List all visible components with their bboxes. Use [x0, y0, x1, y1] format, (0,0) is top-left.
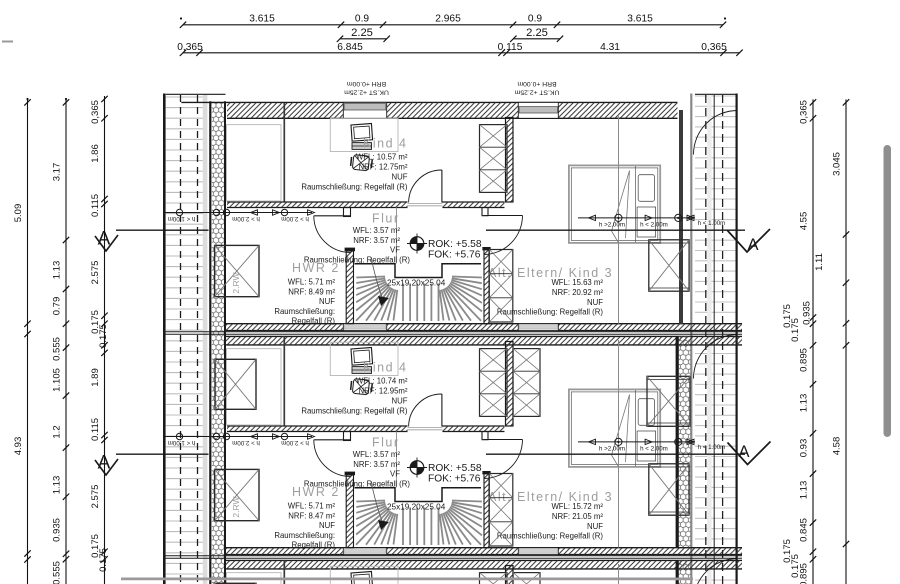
svg-text:1.13: 1.13 — [52, 261, 63, 280]
svg-text:HWR 2: HWR 2 — [292, 485, 340, 499]
svg-text:NRF: 8.49 m²: NRF: 8.49 m² — [288, 287, 335, 296]
svg-text:WFL: 15.72 m²: WFL: 15.72 m² — [551, 502, 603, 511]
height contour vertical — [618, 564, 620, 584]
svg-text:25x19.20x25.04: 25x19.20x25.04 — [387, 279, 446, 288]
svg-text:1.13: 1.13 — [799, 481, 810, 500]
svg-text:0.175: 0.175 — [98, 548, 109, 572]
bed divider — [635, 390, 637, 467]
door AltEltern arc — [484, 440, 523, 479]
svg-text:NUF: NUF — [319, 521, 335, 530]
bed fold — [612, 395, 630, 467]
left dimension chain coarse — [52, 98, 70, 584]
wall piece right of Flur — [482, 208, 488, 216]
stair treads left fan — [356, 501, 397, 545]
svg-text:NRF: 12.75m²: NRF: 12.75m² — [359, 162, 408, 171]
stair enclosure outline — [355, 488, 482, 502]
height line left — [164, 209, 314, 222]
svg-text:UK.ST +2.25m: UK.ST +2.25m — [514, 89, 559, 96]
svg-text:Raumschließung: Regelfall (R): Raumschließung: Regelfall (R) — [301, 406, 408, 415]
svg-text:h >2.00m: h >2.00m — [599, 445, 625, 452]
svg-text:0.935: 0.935 — [52, 518, 63, 542]
svg-text:FOK: +5.76: FOK: +5.76 — [428, 249, 481, 260]
svg-text:3.615: 3.615 — [627, 14, 653, 25]
chair — [350, 154, 372, 171]
door AltEltern leaf — [484, 439, 523, 441]
section marker left — [95, 453, 118, 476]
svg-text:Regelfall (R): Regelfall (R) — [292, 541, 336, 550]
desk — [330, 566, 398, 584]
svg-text:2.965: 2.965 — [435, 14, 461, 25]
svg-text:0.79: 0.79 — [52, 297, 63, 316]
svg-text:0,365: 0,365 — [177, 42, 203, 53]
escape window Kind4 — [215, 583, 256, 584]
svg-text:0.175: 0.175 — [98, 324, 109, 348]
unit1 top exterior wall band with two windows — [181, 102, 677, 118]
escape window HWR — [215, 245, 259, 296]
svg-text:NRF: 3.57 m²: NRF: 3.57 m² — [353, 236, 400, 245]
monitor — [351, 348, 373, 366]
svg-text:4.93: 4.93 — [13, 437, 24, 456]
svg-text:NRF: 12.95m²: NRF: 12.95m² — [359, 386, 408, 395]
svg-text:h > 2.00m: h > 2.00m — [232, 439, 260, 446]
monitor — [351, 124, 373, 142]
height line right — [578, 214, 725, 228]
wardrobe Kind4 — [480, 125, 508, 193]
left dimension chain fine — [90, 96, 109, 584]
svg-text:3.17: 3.17 — [52, 163, 63, 182]
svg-text:2.575: 2.575 — [90, 485, 101, 509]
escape window HWR — [215, 469, 259, 520]
door Kind4 arc — [409, 394, 442, 427]
top window label 1 — [344, 80, 389, 96]
stair walk line — [371, 481, 382, 521]
chair — [350, 378, 372, 395]
desk — [330, 342, 398, 375]
svg-text:0,365: 0,365 — [799, 100, 810, 124]
svg-text:Flur: Flur — [372, 212, 400, 226]
bed blanket — [637, 431, 656, 461]
stair walk arrow — [378, 296, 389, 306]
svg-text:NUF: NUF — [587, 298, 603, 307]
height contour vertical — [618, 340, 620, 548]
svg-text:1.89: 1.89 — [90, 368, 101, 387]
roof ridge line — [283, 336, 285, 426]
door HWR arc — [314, 440, 351, 477]
wardrobe Kind4 — [480, 573, 508, 584]
level marker — [407, 458, 427, 478]
right dimension chain coarse — [832, 99, 850, 584]
svg-text:WFL: 15.63 m²: WFL: 15.63 m² — [551, 278, 603, 287]
door AltEltern leaf — [484, 215, 523, 217]
Kind4 roof rect — [227, 573, 282, 584]
door threshold Flur-Kind4 — [408, 204, 443, 206]
svg-text:WFL: 10.57 m²: WFL: 10.57 m² — [356, 152, 408, 161]
svg-text:Kind 4: Kind 4 — [363, 361, 407, 375]
unit3 roof edge grey line — [121, 578, 693, 581]
level marker — [407, 234, 427, 254]
svg-text:BRH +0.00m: BRH +0.00m — [517, 80, 556, 87]
svg-text:0.115: 0.115 — [90, 418, 101, 441]
svg-text:25x19.20x25.04: 25x19.20x25.04 — [387, 503, 446, 512]
svg-text:2.25: 2.25 — [351, 27, 373, 39]
stair treads right fan — [440, 501, 482, 545]
keyboard — [352, 367, 372, 374]
right room wall (thick line) — [679, 110, 683, 324]
HWR/stair wall pillar — [345, 248, 355, 324]
svg-text:NRF: 20.92 m²: NRF: 20.92 m² — [552, 288, 604, 297]
svg-text:0.555: 0.555 — [52, 337, 63, 361]
section line right — [486, 453, 745, 455]
top window label 2 — [514, 80, 559, 96]
wall piece right of Flur — [482, 432, 488, 440]
svg-text:WFL: 10.74 m²: WFL: 10.74 m² — [356, 376, 408, 385]
bed pillow — [638, 399, 654, 426]
svg-text:WFL: 5.71 m²: WFL: 5.71 m² — [288, 502, 336, 511]
Kind4 roof rect — [227, 125, 282, 201]
stair walk arrow — [378, 520, 389, 530]
svg-text:0.9: 0.9 — [355, 14, 369, 25]
door entry arc — [694, 335, 738, 379]
wardrobe AltEltern left — [489, 250, 513, 323]
svg-text:0.935: 0.935 — [802, 301, 813, 325]
wall Kind4/AltEltern — [506, 566, 514, 584]
middle wall (Kind4/Flur) — [227, 426, 505, 432]
svg-text:2.575: 2.575 — [90, 261, 101, 285]
wardrobe AltEltern upper right — [647, 376, 690, 426]
svg-text:0,365: 0,365 — [90, 100, 101, 124]
svg-text:1.86: 1.86 — [90, 144, 101, 163]
wall Kind4/AltEltern — [506, 118, 514, 203]
section line left — [116, 453, 209, 455]
svg-text:2.RW: 2.RW — [231, 272, 241, 293]
bed outline — [569, 165, 660, 243]
svg-text:Regelfall (R): Regelfall (R) — [292, 317, 336, 326]
svg-text:A: A — [738, 443, 749, 461]
door entry arc — [694, 111, 738, 155]
height contour vertical — [618, 116, 620, 324]
Kind4 roof rect — [227, 349, 282, 425]
svg-text:h < 1.00m: h < 1.00m — [698, 220, 726, 227]
wardrobe AltEltern left — [489, 474, 513, 547]
svg-text:NRF: 21.05 m²: NRF: 21.05 m² — [552, 512, 604, 521]
stair treads middle — [403, 508, 439, 546]
svg-text:h < 1.00m: h < 1.00m — [168, 439, 196, 446]
height line right — [578, 438, 725, 452]
bed fold — [612, 171, 630, 243]
svg-text:0.895: 0.895 — [799, 348, 810, 372]
right wall with insulation — [677, 336, 690, 548]
svg-text:1.105: 1.105 — [52, 368, 63, 392]
keyboard — [352, 143, 372, 150]
escape window Kind4 — [215, 359, 256, 409]
svg-text:4.58: 4.58 — [832, 437, 843, 456]
svg-text:0.115: 0.115 — [90, 194, 101, 217]
scrollbar — [884, 145, 892, 437]
stair walk line — [371, 257, 382, 297]
svg-text:1.11: 1.11 — [814, 253, 825, 271]
roof ridge line — [283, 560, 285, 584]
right staircase strip — [691, 94, 736, 584]
svg-text:h > 2.00m: h > 2.00m — [232, 215, 260, 222]
svg-text:NUF: NUF — [391, 172, 407, 181]
bed outline — [569, 389, 660, 467]
party wall between unit2 and unit3 — [164, 548, 742, 569]
svg-text:NRF: 8.47 m²: NRF: 8.47 m² — [288, 511, 335, 520]
bed divider — [635, 166, 637, 243]
unit 1 interior — [95, 103, 770, 326]
bed inner — [571, 392, 658, 465]
door HWR leaf — [314, 215, 351, 217]
svg-text:h >2.00m: h >2.00m — [599, 221, 625, 228]
svg-text:1.13: 1.13 — [799, 394, 810, 413]
bed pillow — [638, 175, 654, 202]
svg-text:0.93: 0.93 — [799, 439, 810, 458]
door jamb stub HWR — [344, 208, 351, 217]
svg-text:1.13: 1.13 — [52, 476, 63, 495]
svg-text:h < 1.00m: h < 1.00m — [698, 444, 726, 451]
top dimension chain row2 — [177, 42, 742, 56]
unit 2 interior — [95, 335, 771, 550]
section line right — [486, 229, 745, 231]
wardrobe bottom right — [649, 240, 689, 291]
height line left — [164, 433, 314, 446]
roof ridge line — [283, 103, 285, 202]
door jamb stub HWR — [344, 432, 351, 441]
svg-text:0,365: 0,365 — [701, 42, 727, 53]
svg-text:UK.ST +2.25m: UK.ST +2.25m — [344, 89, 389, 96]
svg-text:HWR 2: HWR 2 — [292, 261, 340, 275]
stair enclosure outline — [355, 264, 482, 278]
desk — [330, 118, 398, 151]
svg-text:2.25: 2.25 — [526, 27, 548, 39]
svg-text:VF: VF — [390, 246, 400, 255]
svg-text:Raumschließung:: Raumschließung: — [274, 531, 335, 540]
svg-text:Raumschließung:: Raumschließung: — [274, 307, 335, 316]
stair treads right fan — [440, 277, 482, 321]
svg-text:h > 2.00m: h > 2.00m — [281, 215, 309, 222]
door threshold Flur-Kind4 — [408, 428, 443, 430]
svg-text:h < 2.00m: h < 2.00m — [640, 221, 668, 228]
door AltEltern arc — [484, 216, 523, 255]
svg-text:VF: VF — [390, 470, 400, 479]
svg-text:Raumschließung: Regelfall (R): Raumschließung: Regelfall (R) — [301, 182, 408, 191]
svg-text:1.2: 1.2 — [52, 425, 63, 438]
left party wall with insulation (honeycomb) — [210, 101, 225, 584]
svg-text:NUF: NUF — [587, 522, 603, 531]
svg-text:5.09: 5.09 — [13, 204, 24, 223]
wardrobe AltEltern top — [513, 573, 540, 584]
svg-text:FOK: +5.76: FOK: +5.76 — [428, 473, 481, 484]
svg-text:h < 2.00m: h < 2.00m — [640, 445, 668, 452]
door Kind4 arc — [409, 170, 442, 203]
stairwell void line — [396, 208, 398, 264]
stair right pillar — [482, 471, 490, 548]
right wall with insulation — [677, 560, 690, 584]
svg-text:0.9: 0.9 — [528, 14, 542, 25]
monitor — [351, 572, 373, 584]
wardrobe bottom right — [649, 464, 689, 515]
left dimension chain totals — [13, 98, 31, 584]
svg-text:NRF: 3.57 m²: NRF: 3.57 m² — [353, 460, 400, 469]
HWR/stair wall pillar — [345, 472, 355, 548]
bed blanket — [637, 207, 656, 237]
top dimension chain row1 — [180, 14, 726, 29]
stair treads left fan — [356, 277, 397, 321]
svg-text:0.175: 0.175 — [790, 318, 801, 342]
top sub-dimension 2.25 — [337, 27, 563, 42]
svg-text:Flur: Flur — [372, 436, 400, 450]
svg-text:6.845: 6.845 — [337, 42, 363, 53]
section marker right — [728, 442, 771, 465]
svg-text:3.045: 3.045 — [832, 152, 843, 176]
door HWR arc — [314, 216, 351, 253]
svg-text:A: A — [747, 236, 758, 254]
svg-text:0.175: 0.175 — [790, 554, 801, 578]
svg-text:2.RW: 2.RW — [231, 496, 241, 517]
door HWR leaf — [314, 439, 351, 441]
svg-text:BRH +0.00m: BRH +0.00m — [347, 80, 386, 87]
stairwell void line — [396, 432, 398, 488]
svg-text:h < 1.00m: h < 1.00m — [168, 215, 196, 222]
wall Kind4/AltEltern — [506, 342, 514, 427]
svg-text:0.845: 0.845 — [799, 518, 810, 542]
section marker right — [727, 229, 770, 254]
top-left mark — [2, 41, 13, 43]
svg-text:3.615: 3.615 — [249, 14, 275, 25]
left neighbour staircase strip — [164, 94, 225, 584]
stair right pillar — [482, 247, 490, 324]
svg-text:WFL: 3.57 m²: WFL: 3.57 m² — [353, 226, 401, 235]
svg-text:WFL: 5.71 m²: WFL: 5.71 m² — [288, 278, 336, 287]
section marker left — [95, 229, 118, 252]
svg-text:h > 2.00m: h > 2.00m — [281, 439, 309, 446]
door Kind4 leaf — [441, 394, 443, 427]
section line left — [116, 229, 209, 231]
middle wall (Kind4/Flur) — [227, 202, 505, 208]
bed inner — [571, 168, 658, 241]
svg-text:NUF: NUF — [319, 297, 335, 306]
unit 3 interior (partial) — [95, 559, 771, 584]
right dimension chain fine — [782, 99, 825, 584]
svg-text:4.55: 4.55 — [799, 212, 810, 231]
svg-text:NUF: NUF — [391, 396, 407, 405]
svg-text:WFL: 3.57 m²: WFL: 3.57 m² — [353, 450, 401, 459]
svg-text:0.115: 0.115 — [498, 42, 523, 53]
door entry arc — [694, 559, 738, 584]
svg-text:4.31: 4.31 — [600, 42, 620, 53]
wardrobe Kind4 — [480, 349, 508, 417]
svg-text:0.555: 0.555 — [52, 561, 63, 584]
door Kind4 leaf — [441, 170, 443, 203]
svg-text:Kind 4: Kind 4 — [363, 137, 407, 151]
wardrobe AltEltern top — [513, 349, 540, 417]
stair treads middle — [403, 284, 439, 322]
party wall between unit1 and unit2 — [164, 324, 742, 345]
